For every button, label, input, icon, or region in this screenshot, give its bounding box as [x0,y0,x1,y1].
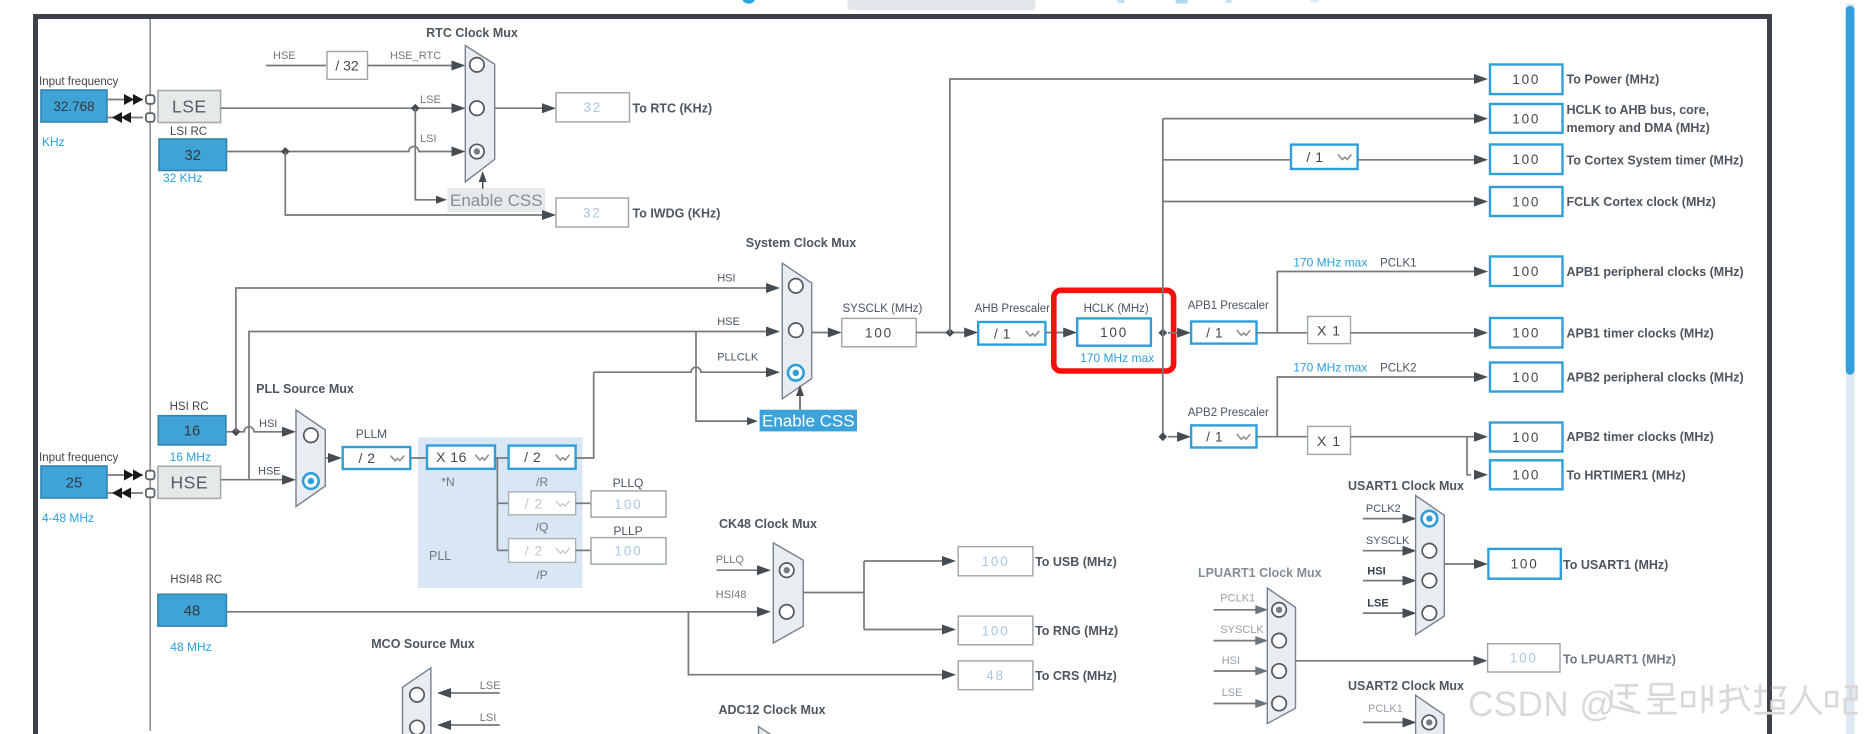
svg-text:APB1 timer clocks (MHz): APB1 timer clocks (MHz) [1567,326,1714,340]
svg-text:To RNG (MHz): To RNG (MHz) [1035,624,1118,638]
ADC12 clock mux body (cropped) [759,727,777,734]
svg-text:100: 100 [615,544,643,559]
svg-text:100: 100 [1512,152,1540,167]
svg-text:To Power (MHz): To Power (MHz) [1567,73,1660,87]
svg-text:To IWDG (KHz): To IWDG (KHz) [633,207,721,221]
CK48 mux radio HSI48 [780,605,794,619]
label LSE (MCO input) [480,680,501,692]
CK48 clock mux body [773,543,803,643]
LPUART1 mux radio SYSCLK [1272,633,1286,647]
wire X1 to APB2 timer box and HRTIMER branch [1351,432,1489,480]
label To Power [1567,73,1660,87]
svg-text:SYSCLK (MHz): SYSCLK (MHz) [843,303,923,315]
PLL /P dropdown /2 (inactive) [509,539,576,563]
wire PLLM to xN [410,457,427,459]
svg-text:/R: /R [536,475,548,489]
wire PLL mux output to PLLM [325,453,342,463]
svg-text:LSE: LSE [1367,598,1388,610]
svg-text:PLLQ: PLLQ [613,476,644,490]
svg-text:100: 100 [1512,430,1540,445]
svg-text:/ 32: / 32 [335,58,359,74]
wire xN to /R with branches to /Q /P [495,458,509,550]
svg-text:ADC12 Clock Mux: ADC12 Clock Mux [719,703,826,717]
label LPUART1 Clock Mux [1198,566,1322,580]
wire HSE_RTC to RTC mux [368,61,466,71]
HSI48 RC box 48 [158,594,227,626]
svg-text:100: 100 [982,623,1010,638]
wire AHB prescaler to HCLK [1045,328,1077,338]
label 48 MHz [170,640,211,654]
MCO mux radio LSE [410,688,424,702]
label PCLK1 (USART2 input) [1368,703,1403,715]
toolbar remnant: light blue text fragments (cropped) [1118,0,1320,4]
label To RTC (KHz) [633,102,713,116]
LSI RC box 32 [159,139,227,171]
To LPUART1 value box [1488,644,1560,672]
To CRS value box [958,661,1033,690]
wire LSI to RTC mux [227,147,466,157]
system clock mux body [782,263,811,399]
svg-text:LSE: LSE [172,97,207,117]
wire /R PLLCLK to system clock mux [576,367,780,458]
svg-text:32: 32 [184,147,201,164]
svg-text:Enable CSS: Enable CSS [450,191,543,210]
toolbar remnant: gray tab button (cropped) [847,0,1035,10]
label HSI (USART1 input) [1367,566,1385,578]
svg-text:System Clock Mux: System Clock Mux [746,236,857,250]
label KHz [42,135,65,149]
svg-text:PCLK2: PCLK2 [1366,503,1401,515]
LPUART1 mux radio HSI [1272,664,1286,678]
wire HSI into USART1 mux [1363,576,1417,586]
label /Q [536,520,549,534]
svg-text:HSI: HSI [1367,566,1385,578]
RTC mux radio HSE_RTC [470,58,484,72]
label PLL [429,549,451,563]
wire PCLK1 into LPUART1 mux [1214,605,1269,614]
svg-text:*N: *N [441,475,454,489]
svg-text:HSI48: HSI48 [716,589,747,601]
svg-text:100: 100 [982,554,1010,569]
wire SYSCLK to AHB prescaler [916,328,978,338]
USART1 mux radio SYSCLK [1422,544,1436,558]
svg-text:LSE: LSE [420,94,441,106]
wire LSE to RTC mux [221,103,466,113]
label LSI (RTC mux input) [420,133,437,145]
svg-text:32: 32 [583,205,602,220]
APB2 peripheral clocks value box [1490,363,1563,392]
PLL mux radio HSI [304,428,318,442]
label PCLK2 [1380,363,1416,375]
wire SYSCLK branch up to To Power [950,74,1488,333]
HSE input frequency box 25 [41,466,107,498]
wire LPUART1 mux output [1296,656,1488,666]
svg-text:RTC Clock Mux: RTC Clock Mux [426,26,518,40]
wire RTC mux output to To RTC box [495,103,556,113]
PLL region background [418,437,583,588]
MCO source mux body [403,668,431,734]
PLLQ value box 100 [591,491,666,517]
svg-text:PLLP: PLLP [613,524,642,538]
label To LPUART1 (MHz) [1563,653,1676,667]
scrollbar track [1846,4,1855,734]
svg-text:LSE: LSE [1222,687,1243,699]
label HSI (PLL mux input) [259,418,277,430]
label PCLK1 [1380,258,1416,270]
label *N [441,475,454,489]
svg-text:PCLK1: PCLK1 [1380,258,1416,270]
svg-text:100: 100 [1512,370,1540,385]
svg-text:Input frequency: Input frequency [39,452,119,464]
svg-text:48: 48 [986,668,1005,683]
svg-text:4-48 MHz: 4-48 MHz [42,511,94,525]
HSE oscillator box [158,466,221,498]
PLL /Q dropdown /2 (inactive) [509,492,576,515]
label USART1 Clock Mux [1348,479,1464,493]
junction LSI to IWDG branch [281,147,290,156]
label /R [536,475,548,489]
svg-text:PCLK2: PCLK2 [1380,363,1416,375]
svg-text:HCLK to AHB bus, core,: HCLK to AHB bus, core, [1567,103,1710,117]
svg-text:AHB Prescaler: AHB Prescaler [975,303,1051,315]
label PLLP [613,524,642,538]
svg-text:170 MHz max: 170 MHz max [1080,351,1154,365]
label FCLK Cortex clock [1567,195,1716,209]
label USART2 Clock Mux [1348,679,1464,693]
label 170 MHz max (HCLK) [1080,351,1154,365]
svg-text:To USART1 (MHz): To USART1 (MHz) [1563,558,1668,572]
svg-text:PCLK1: PCLK1 [1368,703,1403,715]
label 170 MHz max (PCLK2) [1293,361,1367,375]
HSE pin connector wires and arrows [107,470,143,499]
wire PLLQ stub to CK48 mux [717,565,772,575]
wire system mux output SYSCLK [812,328,842,338]
svg-text:/Q: /Q [536,520,549,534]
label HSE (system mux input) [717,316,740,328]
USART1 clock mux body [1416,496,1445,635]
svg-text:PLL Source Mux: PLL Source Mux [256,382,354,396]
svg-text:USART2 Clock Mux: USART2 Clock Mux [1348,679,1464,693]
CK48 mux radio PLLQ selected [780,563,794,577]
label PLLCLK (system mux input) [717,352,759,364]
svg-text:/P: /P [536,568,547,582]
svg-text:To HRTIMER1 (MHz): To HRTIMER1 (MHz) [1567,468,1686,482]
svg-text:CSDN @: CSDN @ [1468,685,1615,724]
wire HSE to PLL source mux [221,475,296,485]
svg-text:LSI: LSI [420,133,437,145]
wire HSI to PLL source mux [226,427,296,437]
svg-text:/ 2: / 2 [524,449,541,465]
wire USART1 mux output [1444,559,1488,569]
svg-text:HSE_RTC: HSE_RTC [390,50,441,62]
svg-text:HSE: HSE [717,316,740,328]
svg-text:32.768: 32.768 [53,99,94,114]
svg-text:PLLQ: PLLQ [716,554,745,566]
label APB2 Prescaler [1188,407,1269,419]
svg-text:PLLCLK: PLLCLK [717,352,759,364]
svg-text:100: 100 [1100,325,1128,340]
label CK48 Clock Mux [719,517,817,531]
svg-text:PLL: PLL [429,549,451,563]
label To HRTIMER1 [1567,468,1686,482]
label RTC Clock Mux [426,26,518,40]
PLL source mux body [296,410,325,507]
wire PCLK2 into USART1 mux [1363,514,1417,524]
svg-text:APB2 peripheral clocks (MHz): APB2 peripheral clocks (MHz) [1567,371,1744,385]
svg-text:FCLK Cortex clock (MHz): FCLK Cortex clock (MHz) [1567,195,1716,209]
svg-text:HSI48 RC: HSI48 RC [170,574,222,586]
label To USB (MHz) [1035,555,1117,569]
APB1 prescaler dropdown /1 [1191,322,1256,344]
label 4-48 MHz [42,511,94,525]
wire HCLK to APB2 prescaler [1168,432,1191,442]
scrollbar thumb [1846,6,1855,375]
svg-text:LSI RC: LSI RC [170,126,207,138]
RTC mux radio LSI selected [470,144,484,158]
SYSCLK value box 100 [842,318,916,346]
svg-text:HSI: HSI [717,273,735,285]
svg-text:HSE: HSE [273,50,296,62]
label LSI RC [170,126,207,138]
wire cortex prescaler to To Cortex box [1358,155,1488,165]
svg-text:X 16: X 16 [436,449,467,465]
svg-text:memory and DMA (MHz): memory and DMA (MHz) [1567,121,1710,135]
red highlight rectangle [1054,290,1174,371]
wire HCLK to AHB bus row [1163,114,1488,124]
label PLLM [356,427,387,441]
svg-text:To LPUART1 (MHz): To LPUART1 (MHz) [1563,653,1676,667]
svg-text:16 MHz: 16 MHz [170,450,211,464]
svg-text:APB2 timer clocks (MHz): APB2 timer clocks (MHz) [1567,430,1714,444]
LPUART1 mux radio LSE [1272,696,1286,710]
USART2 clock mux body (cropped) [1416,695,1444,734]
wire HSE branch down to Enable CSS (system) [696,332,758,426]
PLLM divider dropdown /2 [343,447,411,469]
wire APB1 out with PCLK1 branch [1257,267,1489,333]
svg-text:To USB (MHz): To USB (MHz) [1035,555,1117,569]
RTC mux radio LSE [470,101,484,115]
label HSE (PLL mux input) [258,466,281,478]
wire CK48 output to USB and RNG [803,556,956,635]
svg-text:APB1 Prescaler: APB1 Prescaler [1188,300,1269,312]
HSI RC box 16 [158,416,226,445]
label System Clock Mux [746,236,857,250]
wire HCLK to cortex prescaler row [1163,159,1291,161]
label HCLK (MHz) [1084,303,1149,315]
svg-text:/ 2: / 2 [525,543,544,559]
svg-text:25: 25 [66,475,83,492]
svg-text:MCO Source Mux: MCO Source Mux [371,637,475,651]
wire HSI branch up to system clock mux [236,283,780,432]
system mux radio HSE [789,323,803,337]
label LSE (USART1 input) [1367,598,1388,610]
Enable CSS button (system, active) [760,410,857,432]
label HCLK to AHB [1567,103,1710,135]
wire HSE stub to /32 divider [266,65,326,67]
To RNG value box [958,616,1033,645]
svg-text:/ 1: / 1 [994,325,1011,341]
label LSI (MCO input) [480,712,497,724]
svg-text:CK48 Clock Mux: CK48 Clock Mux [719,517,817,531]
LSE input frequency box 32.768 [41,90,107,122]
CSDN watermark [1468,684,1858,724]
svg-text:/ 2: / 2 [358,450,375,466]
APB2 timer multiplier X1 box [1308,426,1351,454]
HCLK value box 100 [1077,318,1151,345]
system mux radio PLLCLK selected [788,365,804,381]
label APB1 peripheral clocks [1567,265,1744,279]
junction HCLK distribution [1158,328,1167,337]
svg-text:Enable CSS: Enable CSS [762,412,855,431]
junction HSI branch [232,427,241,436]
To Cortex System timer value box [1490,145,1563,175]
APB2 timer clocks value box [1490,423,1563,452]
label ADC12 Clock Mux [719,703,826,717]
divider /32 box [327,52,368,80]
label To CRS (MHz) [1035,669,1117,683]
HCLK to AHB value box [1490,104,1563,133]
svg-text:KHz: KHz [42,135,65,149]
To IWDG value box [556,198,629,227]
junction SYSCLK to-power branch [946,328,955,337]
label SYSCLK (MHz) [843,303,923,315]
svg-text:To Cortex System timer (MHz): To Cortex System timer (MHz) [1567,153,1744,167]
svg-text:SYSCLK: SYSCLK [1366,535,1410,547]
AHB prescaler dropdown /1 [978,322,1045,345]
svg-text:32 KHz: 32 KHz [163,171,202,185]
label LSE (LPUART1 input) [1222,687,1243,699]
LSE pin connector wires and arrows [107,94,143,123]
wire HCLK vertical distribution [1162,119,1164,437]
svg-text:HSI RC: HSI RC [170,401,209,413]
LPUART1 mux radio PCLK1 selected [1272,603,1286,617]
To RTC value box [556,93,630,122]
svg-text:HSE: HSE [258,466,281,478]
wire LSE into MCO mux [437,688,500,698]
cortex prescaler dropdown /1 [1291,145,1358,169]
svg-text:48 MHz: 48 MHz [170,640,211,654]
USART2 mux radio PCLK1 selected [1422,715,1436,729]
svg-text:100: 100 [1511,557,1539,572]
wire X1 to APB1 timer box [1351,328,1489,338]
LSE pin square top [146,95,155,104]
svg-text:X 1: X 1 [1317,433,1341,449]
wire SYSCLK into USART1 mux [1363,546,1417,556]
APB1 timer multiplier X1 box [1308,316,1351,343]
label HSE_RTC [390,50,441,62]
svg-text:USART1 Clock Mux: USART1 Clock Mux [1348,479,1464,493]
svg-text:To RTC (KHz): To RTC (KHz) [633,102,713,116]
wire HSE branch up to system clock mux [249,327,780,480]
svg-text:32: 32 [583,100,602,115]
svg-text:X 1: X 1 [1317,323,1341,339]
APB1 timer clocks value box [1490,318,1563,348]
label PLLQ (CK48 input) [716,554,745,566]
svg-text:170 MHz max: 170 MHz max [1293,256,1367,270]
label APB1 Prescaler [1188,300,1269,312]
svg-text:/ 1: / 1 [1206,325,1223,341]
svg-text:170 MHz max: 170 MHz max [1293,361,1367,375]
wire HSI into LPUART1 mux [1214,667,1269,676]
svg-text:100: 100 [1510,651,1538,666]
MCO mux radio LSI [410,720,424,734]
svg-text:PLLM: PLLM [356,427,387,441]
label HSI48 (CK48 input) [716,589,747,601]
wire HSI48 to CK48 mux [226,607,771,617]
label SYSCLK (USART1 input) [1366,535,1410,547]
To Power value box [1490,65,1563,95]
wire PCLK1 into USART2 mux [1363,717,1417,727]
To USART1 value box [1488,549,1560,579]
label HSI RC [170,401,209,413]
label Input frequency (HSE) [39,452,119,464]
svg-text:APB1 peripheral clocks (MHz): APB1 peripheral clocks (MHz) [1567,265,1744,279]
To USB value box [958,547,1033,576]
label APB2 peripheral clocks [1567,371,1744,385]
svg-text:/ 1: / 1 [1306,149,1323,165]
junction HCLK to APB2 [1158,432,1167,441]
wire LSE into LPUART1 mux [1214,699,1269,708]
HSE pin square bottom [146,489,155,498]
label /P [536,568,547,582]
label AHB Prescaler [975,303,1051,315]
svg-text:To CRS (MHz): To CRS (MHz) [1035,669,1117,683]
svg-text:LSI: LSI [480,712,497,724]
arrow Enable CSS to system mux [796,385,804,410]
label 32 KHz [163,171,202,185]
svg-text:LSE: LSE [480,680,501,692]
svg-text:Input frequency: Input frequency [39,76,119,88]
USART1 mux radio HSI [1422,573,1436,587]
wire HSI48 branch to CRS [688,612,956,680]
PLL xN dropdown X16 [427,446,495,469]
RTC clock mux body [465,46,494,182]
svg-text:100: 100 [1512,326,1540,341]
svg-text:HCLK (MHz): HCLK (MHz) [1084,303,1149,315]
FCLK Cortex clock value box [1490,187,1563,216]
label SYSCLK (LPUART1 input) [1220,624,1264,636]
junction LSE branch [411,104,420,113]
svg-text:48: 48 [184,603,201,620]
label To IWDG (KHz) [633,207,721,221]
svg-text:LPUART1 Clock Mux: LPUART1 Clock Mux [1198,566,1322,580]
label 16 MHz [170,450,211,464]
wire LSI into MCO mux [437,720,500,730]
wire HCLK to FCLK row [1163,197,1488,207]
wire /Q to PLLQ box [576,502,591,504]
APB2 prescaler dropdown /1 [1191,425,1256,447]
label PLLQ [613,476,644,490]
LSE pin square bottom [146,113,155,122]
svg-text:100: 100 [1512,264,1540,279]
USART1 mux radio PCLK2 selected [1422,511,1438,527]
label 170 MHz max (PCLK1) [1293,256,1367,270]
svg-text:100: 100 [1512,111,1540,126]
toolbar remnant: blue info icon (cropped) [742,0,756,4]
label HSI (LPUART1 input) [1222,655,1240,667]
wire LSI branch to To IWDG box [285,152,556,221]
LPUART1 clock mux body [1267,588,1295,724]
svg-text:100: 100 [615,497,643,512]
HSE pin square top [146,471,155,480]
label To RNG (MHz) [1035,624,1118,638]
label HSI (system mux input) [717,273,735,285]
wire SYSCLK into LPUART1 mux [1214,636,1269,645]
PLL /R dropdown /2 [509,446,576,469]
label PLL Source Mux [256,382,354,396]
svg-text:APB2 Prescaler: APB2 Prescaler [1188,407,1269,419]
svg-text:PCLK1: PCLK1 [1220,593,1255,605]
